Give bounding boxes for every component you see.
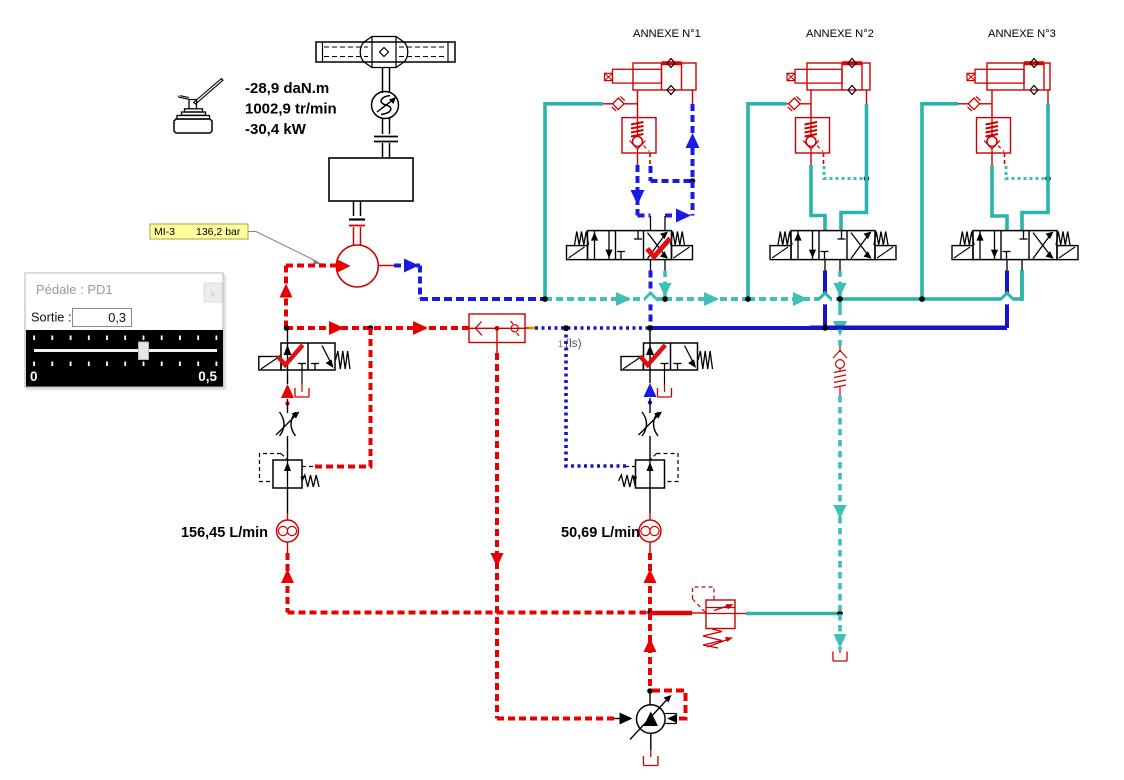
wire pump outlet red [378, 265, 394, 267]
node teal bus left junction [542, 296, 548, 302]
wire FM1 down red [287, 542, 289, 553]
flow meter FM1 [277, 520, 299, 542]
svg-text:0,5: 0,5 [198, 369, 217, 384]
annex 1 pilot blue dashed riser [649, 166, 653, 181]
annex 3 counterbalance out red [991, 153, 993, 165]
annex 3 counterbalance spring [986, 122, 999, 137]
annex 1 node rod side [690, 178, 696, 184]
wire shuttle sense dashed down [495, 353, 499, 719]
annex 1 valve bottom ports [650, 260, 652, 271]
annex 1 cylinder rod [613, 69, 662, 83]
compensator middle pilot dashed hook [657, 454, 679, 482]
pump case drain arrow black [667, 714, 677, 723]
valve DV2 right cap [875, 246, 896, 260]
wire return to relief thick red [650, 611, 692, 616]
oil can step2 [177, 116, 210, 120]
compensator left pilot port dashes [302, 466, 313, 468]
shaft middle [382, 118, 384, 134]
valve V2 cell2 T port [674, 363, 682, 365]
wire teal bus dashed segment 1 [545, 297, 663, 301]
annex 2 cylinder sensor diamonds [848, 59, 856, 68]
annex 1 wire pilot horizontal blue [651, 179, 693, 183]
annex 1 counterbalance spring [631, 122, 644, 137]
valve DV3 right cap [1057, 246, 1078, 260]
PTO center differential body [364, 37, 404, 68]
annex 2 cylinder piston [841, 63, 843, 90]
arrow teal bus 1 [616, 292, 631, 306]
wire V2 down [649, 370, 651, 383]
valve DV3 cell3 crossed arrows [1033, 233, 1052, 259]
wire bottom return bus dashed [288, 611, 651, 615]
valve DV3 cell2 blocked ports [1006, 252, 1008, 260]
annex 3 teal feed riser [922, 104, 958, 299]
svg-text:Pédale : PD1: Pédale : PD1 [36, 282, 113, 297]
pump P1 flow triangle [337, 259, 351, 273]
arrow middle return up [644, 569, 657, 583]
wire throttle to middle compensator [649, 436, 651, 460]
bottom pump circle P2 [637, 705, 666, 734]
arrow middle blue up [644, 383, 657, 397]
PTO axle dashed shafts [324, 46, 368, 48]
annex 3 cylinder rod end [967, 73, 975, 80]
wire red bus to left valve [287, 328, 289, 343]
wire middle compensator to FM2 [649, 488, 651, 513]
annex 2 counterbalance block [796, 118, 830, 153]
valve DV1 left cap [567, 246, 588, 260]
bottom pump variable arrow [630, 699, 668, 740]
node annex2 blue riser junction [822, 325, 828, 331]
arrow LS drain below bus [838, 299, 842, 315]
annex 2 pilot teal dotted [824, 166, 867, 179]
LS bleed orifice relief symbol [839, 345, 841, 352]
pedal window close button [204, 283, 222, 302]
wire pump to tank [650, 733, 652, 750]
PTO center diamond [380, 48, 389, 57]
annex 1 valve top ports [650, 216, 652, 231]
annex 2 arrow B down [834, 283, 847, 297]
compensator middle pilot port dashes [625, 466, 636, 468]
compensator left block [273, 460, 302, 488]
annex 1 counterbalance out red [637, 153, 639, 165]
pedal window slider panel [26, 330, 223, 387]
compensator middle spring [619, 475, 636, 487]
svg-text:Sortie :: Sortie : [31, 310, 72, 325]
node annex1 blue riser junction [647, 325, 653, 331]
annex 1 counterbalance ball [633, 137, 643, 147]
node red bus pump riser [284, 325, 290, 331]
node pump top [647, 688, 653, 694]
relief valve block [706, 600, 735, 629]
gauge label MI-3 [150, 224, 248, 239]
annex 3 wire B teal to bus corner [1020, 271, 1024, 300]
wire left return dashed down [286, 553, 290, 613]
svg-text:ANNEXE N°3: ANNEXE N°3 [988, 28, 1056, 40]
engine shaft flange bar [349, 218, 365, 220]
compensator middle block [636, 460, 665, 488]
oil can step4 [185, 109, 203, 112]
valve DV1 right cap [672, 246, 693, 260]
wire pump suction riser red dashed [284, 266, 288, 329]
annex 3 counterbalance block [977, 118, 1011, 153]
valve V2 cell2 arrow [685, 346, 696, 367]
wire middle return dashed down [648, 553, 652, 613]
valve 3-2 middle V2 cap [621, 357, 643, 371]
valve V1 spring [336, 351, 351, 369]
jump marker teal over annex3 riser [1002, 294, 1013, 305]
annex 2 valve bottom ports [824, 260, 826, 271]
shaft coupling bars [374, 136, 398, 138]
annex 3 wire cylinder right red stub [1047, 90, 1049, 104]
svg-text:1002,9 tr/min: 1002,9 tr/min [245, 101, 337, 118]
arrow red bus 2 [413, 321, 428, 335]
annex 2 counterbalance seat [803, 141, 819, 150]
annex 1 arrow piston side up [686, 133, 700, 148]
valve V1 body [281, 343, 335, 370]
wire LS drain teal dashed [838, 340, 842, 346]
wire pump case drain loop red [652, 691, 686, 719]
wire LS blue dotted horizontal [535, 326, 650, 330]
wire LS dotted branch to middle compensator [566, 328, 627, 466]
bottom pump flow triangle [644, 712, 658, 727]
flow meter FM2 [639, 520, 661, 542]
annex 3 cylinder sensor diamonds [1030, 59, 1038, 68]
arrow teal bus 3 [793, 292, 808, 306]
annex 3 cylinder body [987, 63, 1050, 90]
annex 2 cylinder rod end [787, 73, 795, 80]
annex 3 wire piston side teal riser [1022, 104, 1048, 231]
valve DV2 body [791, 231, 875, 260]
annex 1 feed check valve [613, 98, 624, 110]
wire relief to tank teal [735, 613, 746, 615]
valve DV1 body [588, 231, 672, 260]
tank symbol V1 drain [295, 388, 309, 397]
relief valve spring [703, 629, 722, 648]
bottom pump inlet arrow [620, 713, 633, 725]
valve DV2 left spring [778, 232, 792, 246]
annex 2 wire A teal down [811, 165, 825, 231]
wire pump inlet red dashed [286, 264, 336, 268]
valve DV3 left cap [952, 246, 973, 260]
svg-text:156,45 L/min: 156,45 L/min [181, 525, 268, 541]
valve DV1 cell3 crossed arrows [648, 233, 667, 259]
node overlay dots [542, 296, 548, 302]
valve V1 cell1 T port [298, 363, 306, 365]
annex 1 counterbalance block [622, 118, 656, 153]
valve V1 cell2 arrow [322, 346, 333, 367]
annex 1 teal feed riser [545, 104, 603, 299]
valve V1 check mark [278, 345, 303, 365]
annex 3 cylinder rod [975, 69, 1024, 83]
tank symbol LS drain [839, 650, 841, 653]
wire blue dashed to teal bus [420, 297, 545, 301]
valve 3-2 left V1 cap [259, 357, 281, 371]
wire pump node to pump [649, 691, 651, 705]
svg-text:-30,4 kW: -30,4 kW [245, 121, 307, 138]
arrow LS drain down 2 [834, 634, 847, 648]
arrow shuttle sense down [491, 553, 504, 567]
blue bus overlay above drain arrow [810, 326, 1007, 330]
relief valve strip arrow [714, 606, 729, 611]
tank symbol pump [644, 756, 659, 766]
valve DV2 right spring [874, 232, 888, 246]
engine output shaft [353, 201, 355, 216]
annex 2 counterbalance pilot dashes [823, 153, 825, 166]
annex 3 counterbalance pilot dashes [1004, 153, 1006, 166]
shuttle valve center line [469, 327, 525, 329]
wire red pressure bus dashed [286, 326, 469, 330]
valve V2 cell1 T port [661, 363, 669, 365]
relief valve spring arrow [707, 639, 729, 647]
wire to middle throttle [649, 398, 651, 413]
shuttle valve center dot [495, 326, 500, 331]
wire V1 to throttle [287, 370, 289, 384]
pedal window sortie input [73, 309, 132, 327]
annex 1 cylinder sensor diamonds [667, 59, 675, 68]
shuttle valve block MI [469, 314, 525, 343]
valve V2 cell1 flow arrow [649, 343, 651, 370]
node annex1 B port junction [662, 296, 668, 302]
shuttle valve right orifice circle [511, 325, 518, 332]
compensator left pilot dashed [260, 454, 282, 482]
oil can left bar [179, 96, 189, 100]
wire teal bus dashed segment 2 [665, 297, 748, 301]
valve DV3 body [973, 231, 1057, 260]
annex 1 wire A blue dashed down [636, 165, 640, 216]
annex 2 wire cylinder right red stub [866, 90, 868, 104]
svg-text:MI-3: MI-3 [154, 226, 175, 238]
valve V2 spring [698, 351, 713, 369]
rotation sensor circle [372, 92, 399, 119]
annex 2 counterbalance out red [810, 153, 812, 165]
valve V1 drain line [301, 370, 303, 384]
annex 3 cylinder piston [1023, 63, 1025, 90]
annex 1 wire B port to corner [665, 214, 675, 218]
wire pump outlet blue dashed [394, 264, 420, 268]
wire LS bus to middle valve [649, 328, 651, 343]
node annex2 feed riser junction [745, 296, 751, 302]
arrow left return up [281, 569, 294, 583]
wire teal bus dashed segment 3 [748, 297, 838, 301]
valve DV2 left cap [770, 246, 791, 260]
valve V2 body [644, 343, 698, 370]
wire red dashed pilot from bus [312, 328, 371, 467]
node red bus compensator pilot branch [368, 325, 374, 331]
tank symbol V2 drain [658, 388, 672, 397]
valve DV1 active check mark [647, 238, 670, 256]
arrow left column red up [281, 384, 294, 398]
valve V2 check mark [640, 345, 665, 365]
svg-text:0,3: 0,3 [108, 310, 126, 325]
annex 2 teal feed riser [748, 104, 787, 299]
annex 3 counterbalance ball [987, 137, 997, 147]
annex 1 wire A corner to valve port [638, 214, 651, 218]
pump coupling red bar [349, 225, 365, 227]
wire teal bus solid segment [838, 297, 1022, 301]
valve DV1 cell2 blocked ports [620, 252, 622, 260]
arrow LS drain down 1 [834, 505, 847, 519]
valve V1 cell2 T port [311, 363, 319, 365]
annex 1 wire P riser blue dashed [649, 271, 653, 329]
svg-text:ANNEXE N°1: ANNEXE N°1 [633, 28, 701, 40]
svg-text:ANNEXE N°2: ANNEXE N°2 [806, 28, 874, 40]
annex 3 wire rod port [991, 90, 993, 118]
annex 2 wire piston side teal riser [841, 104, 867, 231]
shaft upper [382, 68, 384, 93]
rotation sensor arrow [377, 99, 394, 112]
annex 1 wire check to node red [603, 103, 613, 105]
annex 1 cylinder body [633, 63, 696, 90]
PTO axle housing [316, 42, 455, 62]
annex 1 arrow B down [659, 283, 672, 297]
arrow pump feed up [644, 638, 657, 652]
throttle middle adjustable [642, 412, 647, 436]
arrow red bus 1 [329, 321, 344, 335]
svg-text:1: 1 [558, 339, 563, 349]
annex 3 feed check valve [968, 98, 979, 110]
node annex3 feed riser junction [919, 296, 925, 302]
annex 1 counterbalance seat [630, 141, 646, 150]
engine block [329, 158, 413, 201]
annex 2 counterbalance ball [806, 137, 816, 147]
wire bottom feed to pump inlet [497, 717, 614, 721]
valve DV1 left spring [575, 232, 589, 246]
compensator left spring [302, 475, 319, 487]
wire LS solid blue bus [650, 326, 1007, 330]
oil can icon base [174, 119, 212, 133]
valve V1 cell1 flow arrow [287, 343, 289, 370]
oil can spout [194, 79, 224, 105]
jump marker teal over annex2 riser [820, 294, 831, 305]
node annex2 drain column junction [837, 296, 843, 302]
pedal window slider ticks [33, 336, 35, 341]
annex 3 wire A teal down [992, 165, 1007, 231]
annex 2 wire B teal to bus [838, 271, 842, 300]
gauge pointer line [248, 232, 318, 263]
annex 2 counterbalance spring [805, 122, 818, 137]
annex 2 wire P riser blue solid [823, 271, 827, 329]
relief valve pilot dashed [693, 587, 715, 600]
annex 2 wire rod port [810, 90, 812, 118]
valve DV1 cell1 arrows [594, 231, 596, 260]
annex 1 arrow B right [676, 209, 691, 223]
annex 2 node rod side [864, 176, 870, 182]
wire shuttle to LS red [525, 327, 531, 329]
annex 1 cylinder rod end [605, 73, 613, 80]
annex 2 wire check to node red [787, 103, 789, 105]
wire middle return down to pump node [648, 613, 652, 691]
valve DV3 left spring [960, 232, 974, 246]
svg-text:136,2 bar: 136,2 bar [196, 226, 241, 238]
annex 2 feed check valve [789, 98, 800, 110]
wire outlet riser blue dashed [418, 266, 422, 300]
annex 1 wire cylinder right red stub [692, 90, 694, 104]
annex 3 pilot teal dotted [1006, 166, 1048, 179]
wire throttle to compensator [287, 436, 289, 460]
wire to throttle [287, 399, 289, 413]
annex 1 wire rod port [637, 90, 639, 118]
oil can neck [189, 100, 197, 109]
oil can step3 [182, 112, 206, 115]
annex 1 wire piston side blue riser [691, 104, 695, 216]
wire teal bus end corner up to annex3 valve [1020, 270, 1024, 301]
annex 3 wire check to node red [958, 103, 968, 105]
valve DV2 cell2 blocked ports [824, 252, 826, 260]
annex 1 arrow A down [631, 190, 645, 205]
shuttle valve left check chevron [476, 322, 483, 336]
annex 2 cylinder body [807, 63, 870, 90]
pump P1 circle [336, 245, 378, 287]
node LS branch down [563, 325, 569, 331]
wire LS drain to tank teal dashed [838, 614, 842, 650]
pedal window PD1 frame [27, 276, 225, 389]
valve V2 drain line [664, 370, 666, 384]
wire compensator to flow meter [287, 488, 289, 513]
pedal window slider thumb [139, 342, 149, 360]
svg-text:-28,9 daN.m: -28,9 daN.m [245, 80, 329, 97]
valve DV2 cell1 arrows [797, 231, 799, 260]
annex 3 node rod side [1045, 176, 1051, 182]
svg-text:0: 0 [30, 369, 38, 384]
annex 1 counterbalance pilot dashes [649, 153, 651, 166]
wire FM2 down red [649, 542, 651, 553]
node tank column junction [837, 611, 843, 617]
annex 3 wire P riser blue solid [1005, 271, 1009, 329]
valve DV1 right spring [671, 232, 685, 246]
valve DV3 cell1 arrows [979, 231, 981, 260]
arrow suction up [280, 284, 293, 298]
wire shuttle sense line red [496, 330, 498, 353]
pedal window slider track [34, 349, 217, 352]
valve DV3 right spring [1056, 232, 1070, 246]
svg-text:50,69 L/min: 50,69 L/min [561, 525, 640, 541]
annex 3 valve bottom ports [1006, 260, 1008, 271]
annex 1 cylinder piston [661, 63, 663, 90]
arrow teal bus 2 [704, 292, 719, 306]
annex 3 counterbalance seat [984, 141, 1000, 150]
pump drive shaft red [353, 227, 355, 245]
annex 2 cylinder rod [795, 69, 842, 83]
node bottom return relief junction [647, 610, 653, 616]
valve DV2 cell3 crossed arrows [851, 233, 870, 259]
throttle left adjustable [280, 412, 285, 436]
arrow pump outlet [404, 259, 419, 273]
relief valve through line [706, 613, 735, 615]
annex 1 wire B teal dashed [663, 271, 667, 300]
jump marker teal over annex1 riser [645, 294, 656, 305]
svg-text:x: x [210, 288, 216, 300]
